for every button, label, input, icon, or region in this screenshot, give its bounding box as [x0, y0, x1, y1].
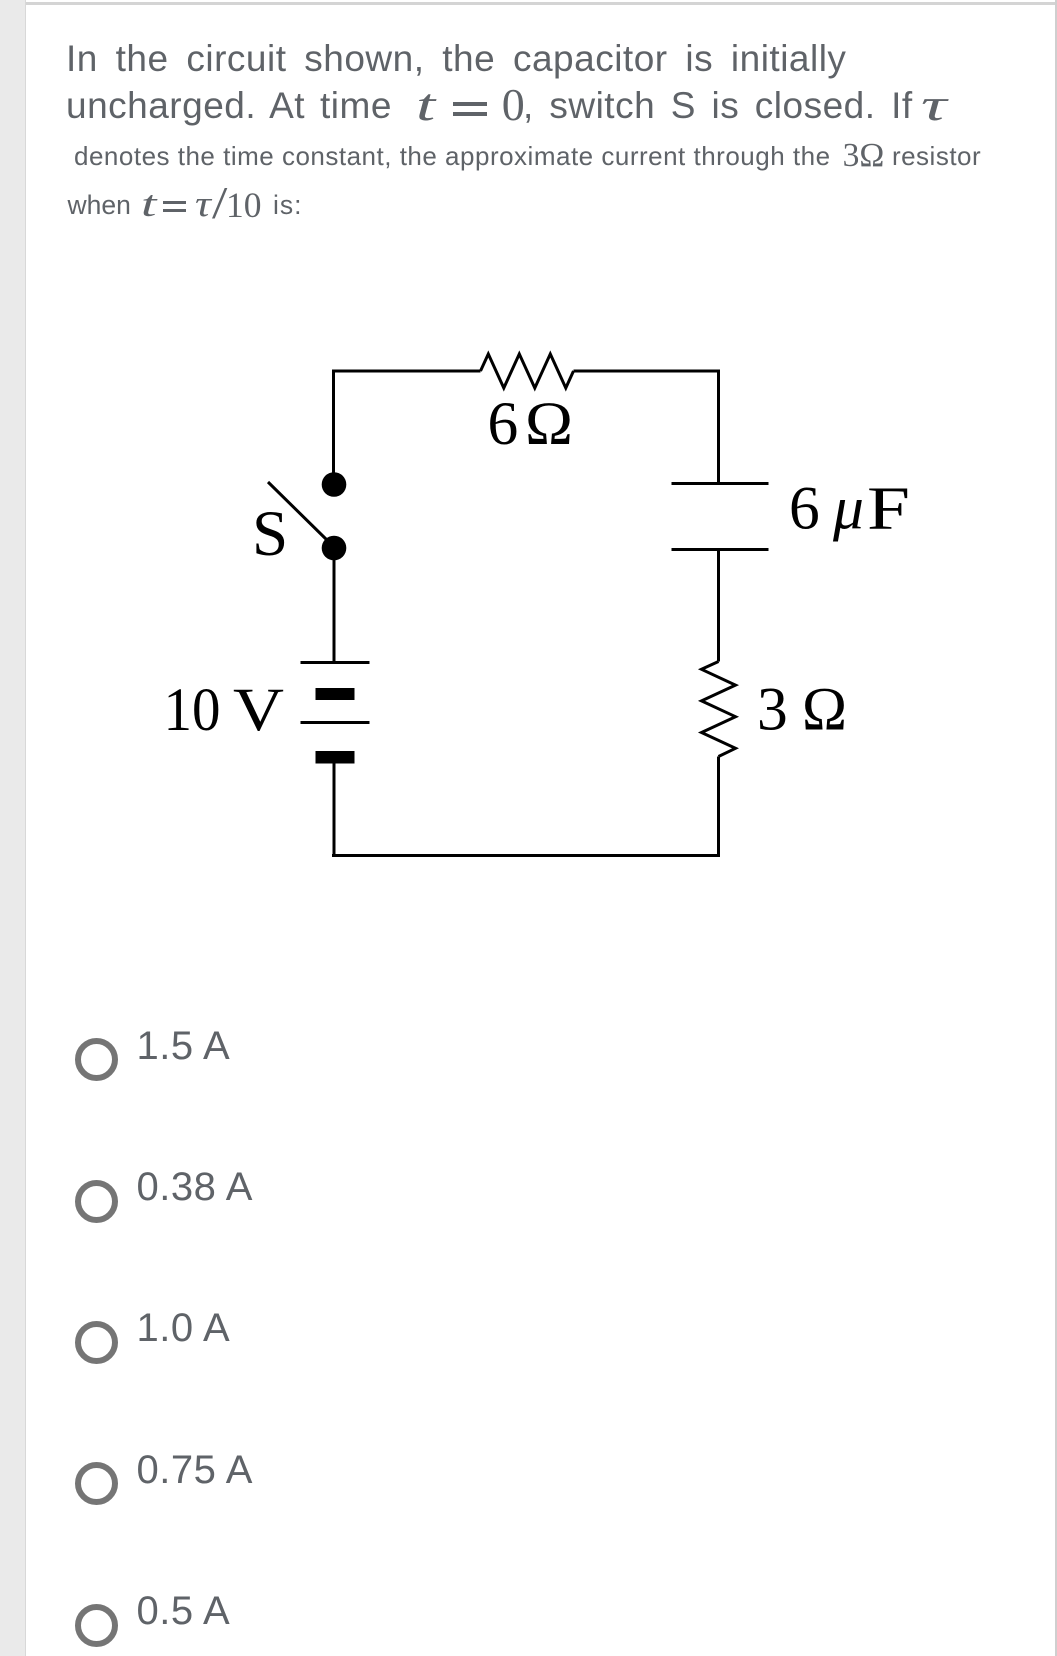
battery cell 1 short thick plate	[316, 688, 355, 700]
wire: top rail right segment	[574, 370, 721, 373]
option 3 text	[137, 1308, 231, 1348]
wire: bottom rail	[332, 854, 720, 857]
math equals line 2	[453, 102, 487, 116]
top border line	[26, 2, 1057, 5]
math 0 line 2	[502, 82, 525, 128]
math 10 line 4	[226, 188, 262, 224]
battery cell 1 long plate	[301, 661, 370, 664]
option 3 radio	[75, 1321, 118, 1364]
option 2 radio	[75, 1180, 118, 1223]
resistor 3ohm zigzag	[702, 662, 736, 757]
battery cell 2 short thick plate	[316, 751, 355, 764]
option 4 radio	[75, 1462, 118, 1505]
question line 1	[66, 40, 846, 77]
wire: top-left vertical from top rail to switch	[332, 370, 335, 475]
question line 4 sans is:	[273, 192, 303, 219]
question line 3	[74, 143, 981, 169]
wire: top rail left segment	[332, 370, 481, 373]
svg-text:6: 6	[789, 475, 820, 543]
wire: battery to bottom rail	[333, 762, 336, 857]
wire: top-right vertical to capacitor	[717, 371, 720, 484]
right edge line	[1055, 0, 1057, 1656]
svg-text:Ω: Ω	[802, 676, 847, 744]
left edge line	[25, 0, 26, 1656]
option 1 radio	[75, 1038, 118, 1081]
math slash line 4	[212, 180, 227, 226]
capacitor C1 top plate	[672, 482, 769, 485]
question line 2 sans part a	[66, 87, 392, 124]
option 4 text	[137, 1450, 253, 1490]
svg-text:μ: μ	[832, 475, 864, 543]
math tau line 4	[195, 186, 211, 223]
battery cell 2 long plate	[301, 721, 370, 724]
switch top contact dot	[322, 472, 347, 497]
svg-text:10: 10	[164, 676, 221, 744]
option 2 text	[137, 1167, 253, 1207]
math t line 2	[416, 82, 435, 128]
math equals line 4	[163, 201, 186, 212]
svg-text:3: 3	[757, 676, 788, 744]
option 1 text	[137, 1026, 231, 1066]
wire: switch to battery	[333, 556, 336, 664]
resistor 6ohm zigzag	[481, 354, 574, 388]
svg-text:Ω: Ω	[525, 390, 573, 458]
svg-text:F: F	[867, 475, 910, 543]
wire: capacitor to 3ohm resistor	[717, 550, 720, 662]
svg-text:6: 6	[488, 390, 519, 458]
option 5 radio	[75, 1604, 118, 1647]
option 5 text	[137, 1591, 231, 1631]
math t line 4	[141, 186, 156, 223]
svg-text:S: S	[252, 498, 288, 570]
question line 4 sans when	[68, 192, 131, 219]
capacitor C1 bottom plate	[672, 548, 769, 551]
question line 2 sans part b	[523, 87, 913, 124]
wire: 3ohm resistor to bottom rail	[717, 757, 720, 858]
math tau line 2	[921, 82, 947, 128]
switch blade	[268, 482, 330, 543]
svg-text:V: V	[233, 676, 284, 744]
switch bottom contact dot	[322, 536, 347, 561]
